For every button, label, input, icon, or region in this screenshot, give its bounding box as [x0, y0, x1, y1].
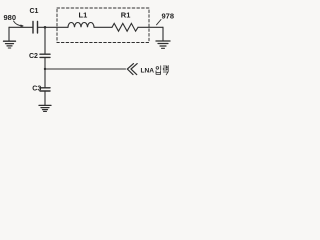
- label 입력 (hand-drawn hangul): [156, 66, 168, 75]
- svg-text:R1: R1: [121, 11, 131, 20]
- enclosure: dashed matching-network box: [57, 8, 149, 43]
- wire: input trunk left: [9, 26, 33, 28]
- svg-text:LNA: LNA: [141, 67, 155, 74]
- svg-text:980: 980: [4, 13, 17, 22]
- wire: R1 to right corner: [138, 26, 163, 28]
- wire: C3 to ground: [44, 91, 46, 105]
- ground G2 (right, at output): [156, 27, 170, 48]
- svg-text:C3: C3: [32, 86, 41, 93]
- capacitor C3: [32, 86, 50, 93]
- ground G3 (bottom, below C3): [39, 105, 51, 111]
- wire: tap junction down to C3: [44, 69, 46, 87]
- svg-text:L1: L1: [79, 11, 88, 20]
- wire: C2 to tap junction: [44, 58, 46, 69]
- svg-text:978: 978: [162, 11, 175, 20]
- wire: LNA feed line: [45, 68, 126, 70]
- wire: L1 to R1: [94, 26, 112, 28]
- connector: off-page chevron to LNA: [127, 64, 137, 75]
- node: LNA tap junction: [44, 68, 46, 70]
- svg-text:C2: C2: [29, 53, 38, 60]
- inductor L1: [68, 11, 94, 28]
- wire: shunt branch down from node: [44, 27, 46, 54]
- capacitor C1: [30, 8, 39, 33]
- node: junction C1/C2: [44, 26, 47, 29]
- wire: C1 to box: [38, 26, 68, 28]
- ground G1 (left, at input): [4, 27, 16, 48]
- resistor R1: [112, 11, 138, 32]
- leader from 980 to input wire: [14, 21, 24, 27]
- svg-text:C1: C1: [30, 8, 39, 15]
- capacitor C2: [29, 53, 50, 60]
- leader from 978 to wire corner: [157, 20, 162, 25]
